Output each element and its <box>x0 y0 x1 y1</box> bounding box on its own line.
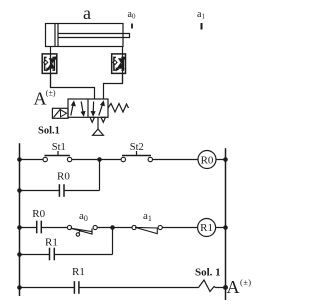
air supply P <box>97 117 99 129</box>
piston <box>54 24 56 47</box>
pushbutton St1 <box>43 151 72 162</box>
rung 3 wire <box>20 287 199 289</box>
exhaust triangle R2 <box>101 117 106 122</box>
wire: left cylinder port down <box>50 47 52 88</box>
contact R0 (NO) <box>59 184 64 197</box>
relay coil R0 <box>198 151 216 169</box>
wire: branch riser <box>112 228 114 255</box>
branch: self-hold R1 contact <box>20 254 113 256</box>
node: rail dots rung1 <box>17 157 22 162</box>
wire: right cylinder port down <box>122 47 124 84</box>
node: rung2 junction for R1 branch <box>110 225 115 230</box>
rung 2 wire <box>20 227 226 229</box>
cylinder body <box>46 24 124 47</box>
svg-text:A: A <box>34 89 47 109</box>
flow control valve (left speed controller) <box>42 54 57 74</box>
ladder: left rail <box>19 143 21 296</box>
node: rung1 / branch R0 junction <box>97 157 102 162</box>
svg-text:A: A <box>227 277 240 297</box>
contact R1 (NO) <box>50 248 55 261</box>
svg-text:R1: R1 <box>72 266 85 278</box>
piston rod <box>58 34 130 38</box>
svg-text:R1: R1 <box>200 222 213 234</box>
relay coil R1 <box>198 219 216 237</box>
ladder: right rail <box>225 148 227 300</box>
limit switch contact a1 <box>132 225 162 233</box>
right box arrows <box>92 102 94 114</box>
solenoid <box>52 108 68 118</box>
node: rail dot branch1 <box>17 188 22 193</box>
node: rung3 right junction <box>223 285 228 290</box>
position tick a1 <box>201 23 203 30</box>
wire: right valve to port A of directional valve <box>104 73 123 99</box>
rung 1 wire <box>20 159 226 161</box>
directional valve U1 (5/2 solenoid valve) <box>68 99 108 117</box>
wire: branch riser <box>99 160 101 191</box>
position tick a0 <box>131 24 133 29</box>
contact R0 (NO) rung2 <box>37 221 42 234</box>
branch: self-hold R0 contact <box>20 190 100 192</box>
node: rail dot branch2 <box>17 252 22 257</box>
svg-text:R0: R0 <box>201 155 214 167</box>
pushbutton St2 <box>121 151 152 162</box>
solenoid coil Sol. 1 (zigzag) <box>199 280 226 292</box>
svg-text:R1: R1 <box>45 237 58 249</box>
node: rail dot rung3 left <box>17 285 22 290</box>
svg-text:a: a <box>83 3 91 23</box>
flow control valve (right speed controller) <box>112 54 126 74</box>
left box arrows <box>71 104 74 116</box>
contact R1 (NO) rung3 <box>74 281 79 294</box>
exhaust triangle R1 <box>90 117 95 122</box>
svg-text:(±): (±) <box>240 277 252 287</box>
svg-text:R0: R0 <box>32 208 45 220</box>
svg-text:(±): (±) <box>46 89 56 98</box>
svg-text:St2: St2 <box>130 142 144 153</box>
svg-text:St1: St1 <box>52 142 66 153</box>
wire: left valve to port B of directional valve <box>51 73 95 99</box>
node: rail dots rung2 <box>17 225 22 230</box>
return spring <box>108 104 129 113</box>
svg-text:Sol. 1: Sol. 1 <box>195 267 221 279</box>
svg-text:Sol.1: Sol.1 <box>38 125 60 136</box>
limit switch contact a0 <box>67 225 97 236</box>
svg-text:R0: R0 <box>57 170 70 182</box>
